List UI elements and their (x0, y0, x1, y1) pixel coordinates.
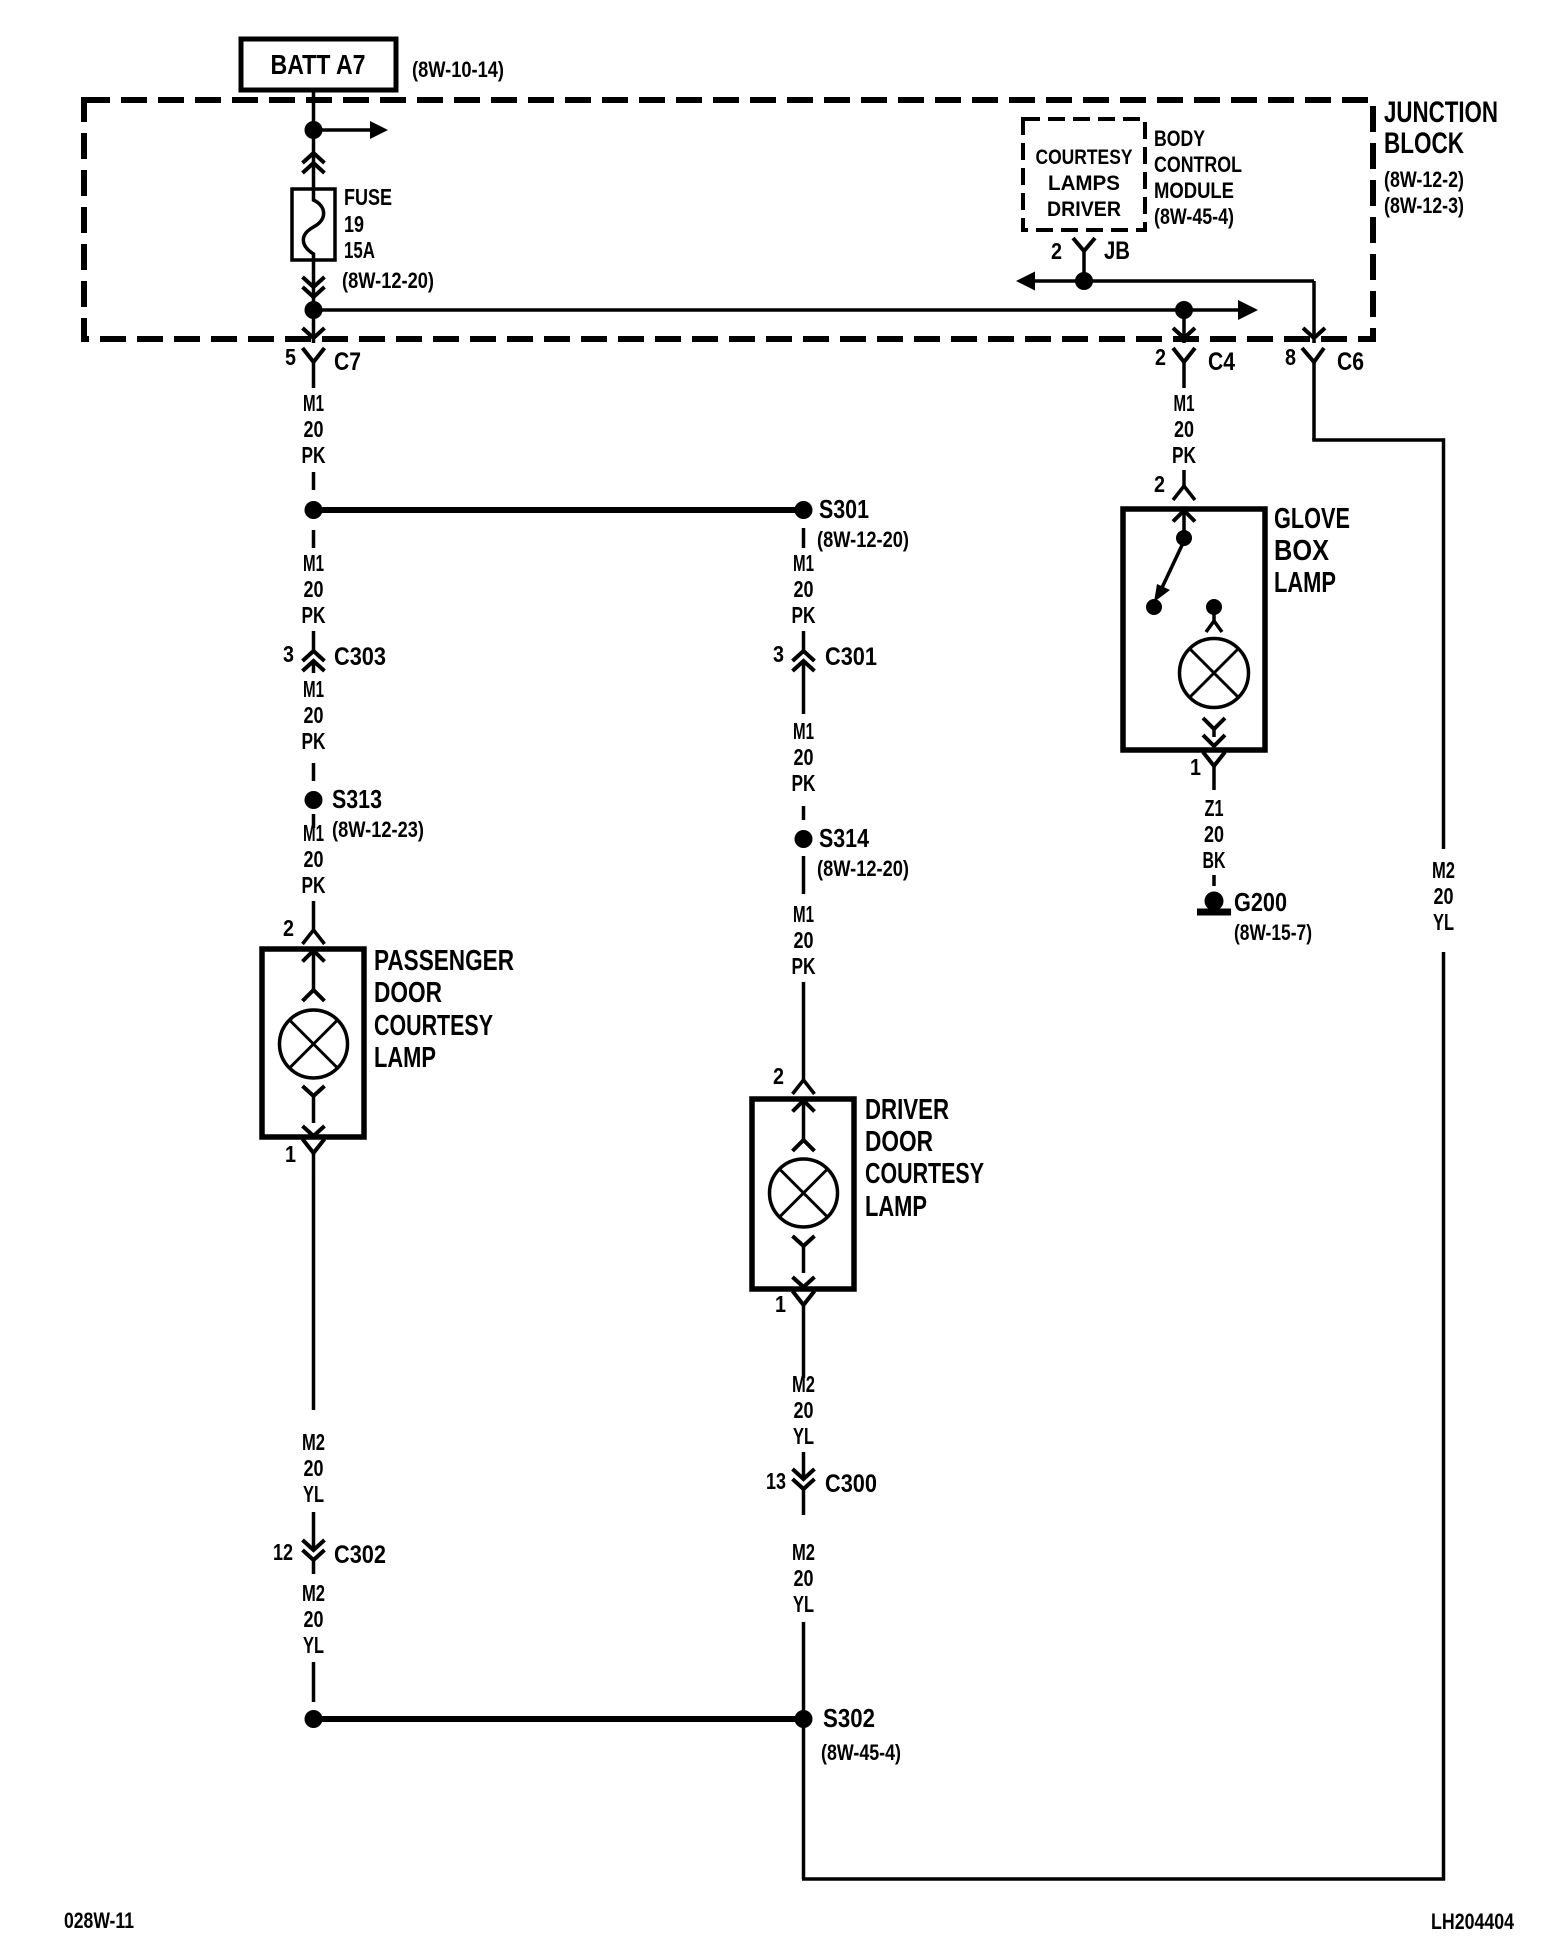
junction dot below BATT A7 (305, 121, 323, 139)
svg-text:1: 1 (775, 1291, 786, 1317)
svg-text:S314: S314 (819, 823, 869, 853)
driver lamp bulb X (780, 1169, 828, 1217)
svg-text:LAMPS: LAMPS (1048, 172, 1120, 195)
splice S314 dot (795, 830, 813, 848)
ground G200 symbol (1205, 892, 1224, 911)
chevron down at border above C4 (1173, 328, 1195, 338)
svg-text:2: 2 (773, 1063, 784, 1089)
svg-text:PK: PK (1172, 442, 1196, 468)
svg-text:C6: C6 (1337, 348, 1364, 376)
wire driver lamp down (802, 1330, 806, 1378)
wire JB feed to C6 (1312, 281, 1316, 343)
svg-text:20: 20 (304, 416, 324, 442)
svg-text:19: 19 (344, 211, 364, 237)
svg-text:2: 2 (1155, 344, 1166, 370)
chevron down at border above C6 (1303, 328, 1325, 338)
splice junction dot left S302 tie (305, 1710, 323, 1728)
svg-text:1: 1 (285, 1141, 296, 1167)
svg-text:(8W-15-7): (8W-15-7) (1234, 920, 1312, 945)
svg-text:M1: M1 (303, 820, 324, 846)
svg-text:2: 2 (1154, 471, 1165, 497)
svg-text:COURTESY: COURTESY (1036, 146, 1133, 169)
glove box switch blade with arrowhead (1159, 541, 1184, 594)
svg-text:LAMP: LAMP (865, 1191, 927, 1223)
svg-text:PK: PK (302, 442, 326, 468)
wire segment above S313 (312, 763, 316, 781)
svg-text:S301: S301 (819, 494, 869, 524)
connector half above glove box lamp (1182, 470, 1186, 486)
svg-text:YL: YL (1433, 909, 1454, 935)
svg-text:M1: M1 (303, 390, 324, 416)
svg-text:C302: C302 (334, 1541, 386, 1569)
svg-text:20: 20 (304, 576, 324, 602)
double chevron down below fuse (303, 277, 325, 287)
wire S302 down to bottom rail (802, 1719, 806, 1879)
splice S313 dot (305, 791, 323, 809)
junction dot fuse output (305, 301, 323, 319)
passenger lamp bulb circle (280, 1010, 348, 1078)
wire segment above S314 (802, 806, 806, 820)
svg-text:PK: PK (302, 872, 326, 898)
svg-text:2: 2 (1051, 238, 1062, 264)
svg-text:LAMP: LAMP (1274, 567, 1336, 599)
wire segment above C303 (312, 631, 316, 651)
svg-text:C7: C7 (334, 348, 361, 376)
svg-text:PK: PK (302, 602, 326, 628)
wire segment below left dot (312, 530, 316, 548)
svg-text:YL: YL (303, 1481, 324, 1507)
svg-text:20: 20 (304, 702, 324, 728)
wire JB output with left arrow (1016, 272, 1035, 291)
svg-text:PK: PK (792, 770, 816, 796)
svg-text:(8W-45-4): (8W-45-4) (821, 1740, 901, 1765)
svg-text:1: 1 (1190, 754, 1201, 780)
svg-text:(8W-12-20): (8W-12-20) (817, 856, 909, 881)
splice S301 dot (795, 501, 813, 519)
wire segment above S302 tie (312, 1662, 316, 1702)
driver lamp bulb circle (770, 1159, 838, 1227)
wire C7 exit (312, 310, 316, 343)
svg-text:PK: PK (792, 602, 816, 628)
glove box lamp feed connector half (1212, 607, 1216, 621)
wire segment above C301 (802, 631, 806, 651)
junction block dashed border (84, 100, 1373, 339)
driver door courtesy lamp box (752, 1099, 854, 1289)
wire passenger lamp down (312, 1177, 316, 1410)
wire C4 exit (1182, 310, 1186, 343)
wire segment above ground (1212, 875, 1216, 886)
chevron down at border above C7 (303, 328, 325, 338)
svg-text:3: 3 (773, 641, 784, 667)
passenger lamp bulb to pin1 (303, 1086, 325, 1096)
svg-text:M2: M2 (792, 1371, 815, 1397)
svg-text:DRIVER: DRIVER (1047, 198, 1121, 221)
connector below passenger lamp (303, 1139, 325, 1153)
svg-text:(8W-12-2): (8W-12-2) (1384, 167, 1464, 192)
glove box lamp bulb to pin1 (1203, 718, 1225, 729)
connector C303 symbol (303, 651, 325, 661)
svg-text:12: 12 (273, 1539, 293, 1565)
svg-text:BOX: BOX (1274, 535, 1330, 567)
connector C7 Y symbol (303, 348, 325, 362)
svg-text:M1: M1 (303, 550, 324, 576)
svg-text:PK: PK (302, 728, 326, 754)
svg-text:CONTROL: CONTROL (1154, 152, 1242, 177)
wire above driver lamp (802, 982, 806, 1066)
wire above S302 (802, 1622, 806, 1719)
feed wire to C4 with arrow (314, 308, 1185, 312)
svg-text:20: 20 (304, 1455, 324, 1481)
wire segment above passenger lamp (312, 901, 316, 917)
connector JB Y symbol (1073, 238, 1095, 251)
svg-text:M1: M1 (303, 676, 324, 702)
splice S302 dot (795, 1710, 813, 1728)
wire dot to fuse (312, 130, 316, 189)
junction dot above C4 (1175, 301, 1193, 319)
svg-text:C300: C300 (825, 1470, 877, 1498)
wire segment (312, 472, 316, 490)
svg-text:8: 8 (1285, 344, 1296, 370)
svg-text:13: 13 (766, 1468, 786, 1494)
svg-text:20: 20 (794, 744, 814, 770)
svg-text:20: 20 (304, 1606, 324, 1632)
svg-text:BODY: BODY (1154, 126, 1205, 151)
svg-text:M1: M1 (793, 718, 814, 744)
svg-text:YL: YL (793, 1591, 814, 1617)
svg-text:S302: S302 (823, 1703, 875, 1733)
svg-text:M2: M2 (302, 1429, 325, 1455)
svg-text:JUNCTION: JUNCTION (1384, 96, 1498, 129)
junction dot below JB (1075, 272, 1093, 290)
passenger lamp feed arrow (303, 951, 325, 962)
svg-text:LH204404: LH204404 (1431, 1909, 1515, 1934)
svg-text:20: 20 (794, 1565, 814, 1591)
svg-text:(8W-12-20): (8W-12-20) (342, 268, 434, 293)
svg-text:20: 20 (794, 576, 814, 602)
connector C302 symbol (312, 1532, 316, 1550)
svg-text:20: 20 (1434, 883, 1454, 909)
wire segment below S313 (312, 814, 316, 828)
connector half above driver lamp (802, 1066, 806, 1080)
svg-text:PASSENGER: PASSENGER (374, 945, 514, 977)
glove box lamp bulb circle (1180, 639, 1249, 708)
wire segment above C302 (312, 1512, 316, 1532)
connector C6 Y symbol (1302, 348, 1324, 362)
svg-text:DOOR: DOOR (865, 1126, 933, 1158)
svg-text:20: 20 (1174, 416, 1194, 442)
svg-text:(8W-12-3): (8W-12-3) (1384, 193, 1464, 218)
svg-text:3: 3 (283, 641, 294, 667)
svg-text:028W-11: 028W-11 (64, 1908, 134, 1933)
body control module courtesy lamps driver dashed box (1023, 119, 1145, 230)
wire C301 down (802, 673, 806, 714)
splice wire S301 tie (314, 507, 804, 513)
svg-text:M2: M2 (302, 1580, 325, 1606)
svg-text:2: 2 (283, 915, 294, 941)
wire segment above C300 (802, 1452, 806, 1463)
svg-text:G200: G200 (1234, 887, 1287, 917)
svg-text:DRIVER: DRIVER (865, 1094, 949, 1126)
wire BATT A7 to junction dot (312, 90, 316, 130)
svg-text:LAMP: LAMP (374, 1042, 436, 1074)
svg-text:C301: C301 (825, 643, 877, 671)
glove box lamp box (1123, 509, 1265, 750)
glove box lamp feed arrow (1173, 511, 1195, 522)
svg-text:GLOVE: GLOVE (1274, 503, 1350, 535)
svg-text:M1: M1 (793, 901, 814, 927)
svg-text:M2: M2 (1432, 857, 1455, 883)
svg-text:20: 20 (794, 927, 814, 953)
svg-text:COURTESY: COURTESY (374, 1010, 493, 1042)
passenger lamp bulb X (290, 1020, 338, 1068)
splice wire S302 tie (314, 1716, 804, 1722)
svg-text:20: 20 (794, 1397, 814, 1423)
svg-text:FUSE: FUSE (344, 184, 392, 210)
connector C4 Y symbol (1173, 348, 1195, 362)
driver lamp feed arrow (793, 1101, 815, 1112)
svg-text:(8W-45-4): (8W-45-4) (1154, 204, 1234, 229)
svg-text:BLOCK: BLOCK (1384, 127, 1464, 160)
svg-text:YL: YL (303, 1632, 324, 1658)
svg-text:20: 20 (1204, 821, 1224, 847)
arrow wire right from dot (314, 128, 371, 132)
svg-text:PK: PK (792, 953, 816, 979)
svg-text:S313: S313 (332, 784, 382, 814)
fuse F19 element squiggle (303, 189, 323, 260)
svg-text:C4: C4 (1208, 348, 1235, 376)
svg-text:M1: M1 (1174, 390, 1195, 416)
svg-text:MODULE: MODULE (1154, 178, 1234, 203)
glove box lamp bulb X (1190, 649, 1238, 697)
wire below S314 (802, 856, 806, 894)
connector half above passenger lamp (312, 917, 316, 930)
svg-text:5: 5 (285, 344, 296, 370)
svg-text:(8W-10-14): (8W-10-14) (412, 57, 504, 82)
connector below driver lamp (793, 1291, 815, 1305)
svg-text:20: 20 (304, 846, 324, 872)
svg-text:Z1: Z1 (1205, 795, 1224, 821)
svg-text:BK: BK (1203, 847, 1226, 873)
connector C301 symbol (793, 651, 815, 661)
svg-text:DOOR: DOOR (374, 977, 442, 1009)
svg-text:M1: M1 (793, 550, 814, 576)
svg-text:M2: M2 (792, 1539, 815, 1565)
glove box switch pivot dot (1176, 530, 1192, 546)
svg-text:(8W-12-20): (8W-12-20) (817, 527, 909, 552)
wire segment below S301 (802, 528, 806, 548)
driver lamp bulb to pin1 (793, 1236, 815, 1246)
splice junction dot left S301 tie (305, 501, 323, 519)
svg-text:BATT A7: BATT A7 (271, 49, 366, 80)
svg-text:C303: C303 (334, 643, 386, 671)
fuse F19 box (292, 189, 335, 260)
passenger door courtesy lamp box (262, 949, 364, 1137)
svg-text:(8W-12-23): (8W-12-23) (332, 817, 424, 842)
wire C6 down and right to rail (1312, 388, 1316, 440)
battery feed box BATT A7 (241, 39, 396, 90)
right rail wire lower (1442, 952, 1446, 1881)
connector C300 symbol (802, 1463, 806, 1479)
wire fuse to junction dot (312, 260, 316, 310)
glove box lamp feed dot (1206, 599, 1222, 615)
glove box switch contact dot (1146, 599, 1162, 615)
svg-text:YL: YL (793, 1423, 814, 1449)
svg-text:15A: 15A (344, 237, 375, 263)
svg-text:COURTESY: COURTESY (865, 1158, 984, 1190)
double chevron up above fuse (303, 153, 325, 163)
svg-text:JB: JB (1104, 237, 1130, 265)
connector below glove box lamp (1203, 752, 1225, 766)
